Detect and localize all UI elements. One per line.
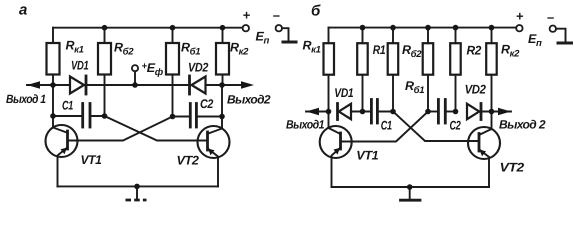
svg-text:R2: R2 (467, 44, 482, 58)
svg-text:VD2: VD2 (188, 61, 208, 75)
svg-text:а: а (19, 2, 27, 19)
svg-text:Выход2: Выход2 (227, 93, 271, 107)
svg-text:+: + (516, 9, 524, 24)
svg-text:Выход 2: Выход 2 (499, 118, 546, 132)
svg-text:VD2: VD2 (465, 83, 486, 97)
svg-text:C1: C1 (381, 119, 392, 133)
svg-text:+: + (243, 8, 251, 23)
svg-text:VT1: VT1 (356, 149, 378, 163)
svg-text:R1: R1 (373, 43, 386, 57)
svg-text:Выход 1: Выход 1 (6, 92, 46, 106)
svg-text:–: – (547, 10, 554, 25)
svg-text:VD1: VD1 (334, 86, 353, 100)
svg-text:VT2: VT2 (500, 161, 524, 175)
svg-text:VT1: VT1 (81, 153, 102, 167)
svg-text:C2: C2 (200, 97, 213, 111)
svg-text:VD1: VD1 (71, 59, 89, 73)
svg-text:б: б (311, 3, 321, 20)
svg-text:C2: C2 (450, 119, 461, 133)
svg-text:–: – (273, 8, 280, 23)
svg-text:Выход1: Выход1 (286, 118, 325, 132)
svg-text:C1: C1 (62, 99, 73, 113)
svg-text:VT2: VT2 (177, 154, 199, 168)
